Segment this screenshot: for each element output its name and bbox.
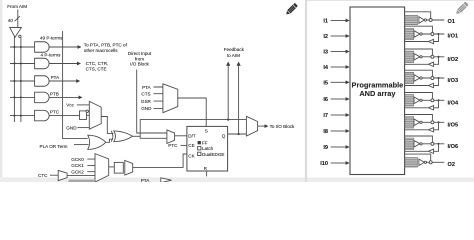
svg-text:O2: O2 <box>448 162 455 168</box>
wire PTC output to polarity box <box>49 115 79 117</box>
wire feedback I/O3 <box>438 77 440 79</box>
wire PLA OR term input <box>74 144 89 146</box>
svg-text:Q: Q <box>222 134 226 139</box>
svg-text:I2: I2 <box>323 34 328 40</box>
wire true column <box>13 36 15 122</box>
wire vertical product-term feed to OR gate <box>63 31 88 139</box>
svg-text:40: 40 <box>8 18 14 23</box>
svg-text:CTC: CTC <box>38 173 48 178</box>
svg-text:CTS, CTE: CTS, CTE <box>86 66 107 71</box>
wire GCK inputs <box>87 159 95 172</box>
svg-text:O1: O1 <box>448 19 455 25</box>
output group I/O3 <box>405 72 414 84</box>
svg-text:I/O3: I/O3 <box>448 78 459 84</box>
cropped gray bar <box>69 180 96 182</box>
node pin O1 <box>429 19 432 22</box>
wire direct input to D/T mux <box>137 70 167 134</box>
and-gate 4 P-terms AND <box>35 58 50 69</box>
wire feedback I/O5 <box>438 121 440 123</box>
and-gate PTB AND <box>35 92 50 103</box>
svg-text:AND array: AND array <box>359 89 396 98</box>
feedback buffer I/O5 <box>428 128 433 132</box>
svg-text:S: S <box>205 128 208 133</box>
svg-text:Latch: Latch <box>202 146 214 151</box>
wire gate2 output to CTC CTR CTS CTE <box>49 63 79 65</box>
buffer triangle (cropped bottom) <box>161 178 172 183</box>
feedback buffer I/O1 <box>428 39 433 43</box>
svg-text:I8: I8 <box>323 129 328 135</box>
svg-text:I/O1: I/O1 <box>448 34 459 40</box>
wire feedback I/O6 <box>438 143 440 145</box>
wire feedback I/O2 <box>438 56 440 58</box>
svg-text:CK: CK <box>188 153 195 158</box>
and-gate 49 P-terms AND <box>35 42 50 53</box>
svg-text:GCK1: GCK1 <box>71 163 84 168</box>
wire Q output to mux <box>228 133 247 135</box>
node pin I/O3 <box>431 77 434 80</box>
svg-text:other macrocells: other macrocells <box>84 48 118 53</box>
wire enable term I/O3 <box>405 70 432 76</box>
wire enable term O2 <box>405 154 431 161</box>
panel divider <box>305 0 307 182</box>
flip-flop box <box>187 126 228 171</box>
node pin O2 <box>429 161 432 164</box>
wire R pin down <box>206 171 208 176</box>
svg-text:PTA: PTA <box>51 75 61 80</box>
wire gate1 output to other macrocells <box>49 46 79 48</box>
wire GND to mux <box>78 127 90 129</box>
mux D/T select <box>167 130 175 144</box>
svg-text:I6: I6 <box>323 97 328 103</box>
wire PTA output <box>49 80 78 82</box>
mux Vcc/PT/GND <box>89 101 101 129</box>
wire set mux to S pin <box>178 98 206 126</box>
buffer I/O1 <box>414 31 420 38</box>
svg-text:I/O2: I/O2 <box>448 57 459 63</box>
wire config box to mux <box>87 111 90 115</box>
buffer O1 <box>419 17 424 24</box>
feedback buffer I/O3 <box>428 83 433 87</box>
bottom gray strip <box>0 177 474 182</box>
wire to pin I/O3 <box>422 77 444 79</box>
wire XOR output junction <box>133 135 141 137</box>
svg-text:CTC, CTR,: CTC, CTR, <box>86 61 109 66</box>
left page edge shading <box>0 0 2 182</box>
wire to pin I/O5 <box>422 121 444 123</box>
buffer I/O3 <box>414 75 420 82</box>
wire product term row (PTB) <box>10 96 35 98</box>
wire product term row (49) <box>10 46 35 48</box>
feedback buffer I/O4 <box>428 106 433 110</box>
output group O2 <box>405 158 418 168</box>
wire combinatorial to output mux <box>140 120 246 137</box>
mux divided clock <box>125 160 133 175</box>
node junction dots row y=115.6 <box>13 115 15 117</box>
output group I/O6 <box>405 138 414 150</box>
node pin I/O1 <box>431 33 434 36</box>
output group O1 <box>405 15 418 25</box>
svg-text:PTC: PTC <box>50 110 60 115</box>
mux CTC (small) <box>58 170 67 180</box>
icon pencil (left panel) <box>285 3 298 16</box>
wire product term row (PTC) <box>10 115 35 117</box>
wire to I/O block <box>258 125 266 127</box>
svg-text:PTA: PTA <box>142 85 152 90</box>
svg-text:DualEDGE: DualEDGE <box>202 152 224 157</box>
wire enable term I/O1 <box>405 26 432 32</box>
checkbox FF (checked) <box>198 141 201 144</box>
or-gate PLA OR <box>88 135 106 149</box>
svg-text:D/T: D/T <box>188 134 196 139</box>
svg-text:I/O4: I/O4 <box>448 101 459 107</box>
svg-text:CE: CE <box>188 143 194 148</box>
inverter bubble on buffer <box>19 35 21 37</box>
svg-text:I10: I10 <box>320 161 328 167</box>
node junction dots row y=47.0 <box>13 46 15 48</box>
wire enable term O1 <box>405 12 431 18</box>
wire to pin I/O2 <box>422 56 444 58</box>
svg-text:PLA OR Term: PLA OR Term <box>40 144 68 149</box>
and-gate PTC AND <box>35 110 50 121</box>
svg-text:From AIM: From AIM <box>7 4 27 9</box>
svg-text:49 P-terms: 49 P-terms <box>40 36 63 41</box>
buffer I/O4 <box>414 97 420 104</box>
wire feedback I/O1 <box>438 33 440 35</box>
svg-text:PTC: PTC <box>168 143 178 148</box>
svg-text:GCK0: GCK0 <box>71 157 84 162</box>
wire PTB output <box>49 96 80 98</box>
wire XOR output into D/T mux <box>140 136 167 138</box>
svg-text:PTB: PTB <box>50 91 59 96</box>
svg-text:To I/O Block: To I/O Block <box>270 124 295 129</box>
svg-text:Feedback: Feedback <box>224 47 245 52</box>
buffer O2 <box>419 159 424 166</box>
wire to pin I/O4 <box>422 99 444 101</box>
wire CTC to small mux <box>50 174 58 176</box>
icon pencil (right panel) <box>455 1 469 15</box>
wire product term row (4) <box>10 63 35 65</box>
polarity config box <box>80 111 87 120</box>
wire Vcc to mux <box>77 104 90 106</box>
wire clock to CK pin <box>133 154 187 167</box>
node junction dots row y=81.0 <box>13 80 15 82</box>
wire PTC to CE <box>181 144 187 146</box>
node junction dots row y=63.5 <box>13 63 15 65</box>
output group I/O5 <box>405 117 414 129</box>
wire feedback1 to AIM <box>227 65 229 120</box>
svg-text:FF: FF <box>202 141 208 146</box>
wire mux output to XOR <box>101 117 113 134</box>
wire D/T mux to FF <box>175 135 187 137</box>
node pin I/O2 <box>431 55 434 58</box>
buffer I/O2 <box>414 54 420 61</box>
wire small mux to clock mux <box>67 174 95 176</box>
svg-text:I/O5: I/O5 <box>448 123 459 129</box>
and-gate PTA AND <box>35 76 50 87</box>
wire clock mux to divider <box>109 166 115 168</box>
svg-text:Vcc: Vcc <box>66 103 74 108</box>
checkbox Latch <box>198 147 201 150</box>
top border of right panel <box>307 0 474 1</box>
wire enable term I/O2 <box>405 49 432 55</box>
node pin I/O6 <box>431 142 434 145</box>
svg-text:CTS: CTS <box>141 92 150 97</box>
svg-text:4 P-terms: 4 P-terms <box>41 52 62 57</box>
wire to pin I/O6 <box>422 143 444 145</box>
wire product term row (PTA) <box>10 80 35 82</box>
wire OR output to XOR <box>106 139 113 142</box>
svg-text:GCK2: GCK2 <box>71 170 84 175</box>
bus-width slash 40 <box>15 16 20 21</box>
clock divider box <box>114 162 123 173</box>
mux output select <box>246 116 257 136</box>
feedback buffer I/O2 <box>428 62 433 66</box>
svg-text:I3: I3 <box>323 50 328 56</box>
output group I/O4 <box>405 95 414 107</box>
node pin I/O4 <box>431 99 434 102</box>
checkbox DualEDGE <box>198 152 201 155</box>
svg-text:GND: GND <box>141 106 152 111</box>
svg-text:GSR: GSR <box>141 99 152 104</box>
output group I/O1 <box>405 28 414 40</box>
svg-text:to AIM: to AIM <box>227 53 240 58</box>
buffer I/O6 <box>414 141 420 148</box>
wire complement column <box>20 38 22 122</box>
node pin I/O5 <box>431 121 434 124</box>
wire enable term I/O4 <box>405 93 432 99</box>
wire enable term I/O6 <box>405 136 432 142</box>
wire feedback I/O4 <box>438 99 440 101</box>
box Programmable AND array <box>350 7 405 175</box>
bubble on config box <box>86 110 88 112</box>
mux set source <box>163 84 178 113</box>
wire enable term I/O5 <box>405 115 432 121</box>
feedback buffer I/O6 <box>428 149 433 153</box>
wire input from AIM <box>17 10 19 28</box>
wire to pin O2 <box>427 161 445 163</box>
node junction dot feedback2 <box>238 133 240 135</box>
output group I/O2 <box>405 51 414 63</box>
svg-text:I1: I1 <box>323 19 328 25</box>
buffer I/O5 <box>414 119 420 126</box>
svg-text:I7: I7 <box>323 113 328 119</box>
wire set mux inputs <box>154 87 163 108</box>
wire feedback2 to AIM <box>238 65 240 135</box>
node junction dot feedback1 <box>227 119 229 121</box>
mux clock select <box>95 154 109 182</box>
svg-text:I/O Block: I/O Block <box>130 62 149 67</box>
svg-text:PTA: PTA <box>141 178 151 182</box>
wire to pin I/O1 <box>422 33 444 35</box>
xor-gate polarity <box>114 131 133 142</box>
wire to pin O1 <box>427 19 445 21</box>
svg-text:I/O6: I/O6 <box>448 144 459 150</box>
buffer input (triangle) <box>10 28 22 38</box>
node junction dots row y=97.4 <box>13 96 15 98</box>
svg-text:I5: I5 <box>323 80 328 86</box>
svg-text:GND: GND <box>66 126 77 131</box>
svg-text:I9: I9 <box>323 145 328 151</box>
